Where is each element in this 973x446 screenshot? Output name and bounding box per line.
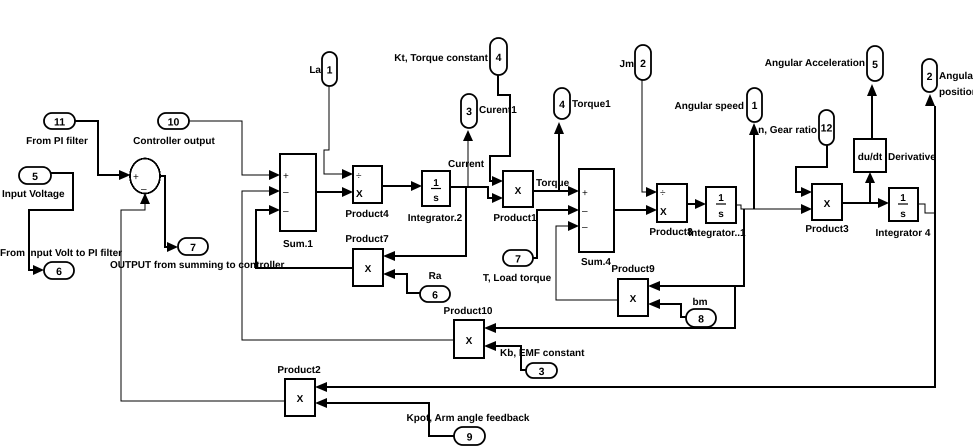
svg-text:T, Load torque: T, Load torque bbox=[483, 273, 552, 284]
wire speed branch up to port1 Angular speed bbox=[749, 123, 759, 209]
svg-text:6: 6 bbox=[56, 266, 62, 278]
svg-text:9: 9 bbox=[467, 432, 473, 444]
port 1 Angular speed (vertical) bbox=[675, 88, 762, 122]
svg-text:X: X bbox=[365, 264, 372, 275]
svg-text:–: – bbox=[283, 206, 289, 217]
svg-text:4: 4 bbox=[559, 99, 565, 111]
block Product3 bbox=[805, 184, 849, 235]
svg-text:Derivative: Derivative bbox=[888, 152, 936, 163]
svg-text:+: + bbox=[133, 172, 139, 183]
block Product9 (mirrored) bbox=[611, 264, 655, 316]
svg-text:1: 1 bbox=[433, 178, 439, 189]
block Product7 bbox=[345, 234, 389, 286]
svg-text:X: X bbox=[824, 199, 831, 210]
svg-text:X: X bbox=[630, 294, 637, 305]
svg-text:7: 7 bbox=[515, 254, 521, 266]
wire sum circle to port7 bbox=[160, 176, 178, 252]
svg-text:Sum.4: Sum.4 bbox=[581, 257, 611, 268]
port 5 Input Voltage bbox=[2, 167, 65, 200]
svg-text:–: – bbox=[582, 206, 588, 217]
svg-text:2: 2 bbox=[927, 71, 933, 83]
port 2 Jm (vertical) bbox=[620, 45, 651, 80]
wire Sum.1 out to Product4 in2 bbox=[316, 187, 353, 197]
svg-text:Product8: Product8 bbox=[649, 227, 693, 238]
svg-text:Kpot, Arm angle feedback: Kpot, Arm angle feedback bbox=[407, 413, 530, 424]
block Product10 bbox=[444, 306, 493, 358]
wire port11 to sum circle bbox=[75, 121, 131, 180]
svg-text:Input Voltage: Input Voltage bbox=[2, 189, 65, 200]
svg-text:6: 6 bbox=[432, 290, 438, 302]
svg-text:s: s bbox=[433, 193, 439, 204]
svg-text:Angular: Angular bbox=[939, 71, 973, 82]
svg-text:La: La bbox=[309, 65, 321, 76]
svg-text:1: 1 bbox=[900, 193, 906, 204]
wire Product3 out to Integrator 4 bbox=[842, 198, 889, 208]
svg-text:X: X bbox=[356, 189, 363, 200]
wire current branch down to Product7 in1 bbox=[383, 187, 466, 261]
svg-text:X: X bbox=[297, 394, 304, 405]
block Integrator..1 bbox=[688, 187, 746, 239]
wire position line up to port2 bbox=[925, 94, 935, 213]
svg-text:position: position bbox=[939, 87, 973, 98]
wire du/dt out to port5 Angular Acceleration bbox=[867, 84, 877, 139]
svg-text:Integrator.2: Integrator.2 bbox=[408, 213, 463, 224]
svg-text:Torque: Torque bbox=[536, 178, 570, 189]
wire Integrator 4 out jog bbox=[918, 204, 935, 213]
port 10 Controller output bbox=[133, 113, 215, 147]
wire Integrator.2 out current line bbox=[448, 159, 503, 203]
svg-text:Product2: Product2 bbox=[277, 365, 321, 376]
wire Product9 out to Sum.4 in3 bbox=[556, 221, 618, 300]
block Product1 bbox=[493, 171, 537, 224]
block Product4 bbox=[345, 166, 389, 220]
svg-text:bm: bm bbox=[693, 297, 708, 308]
svg-text:5: 5 bbox=[872, 59, 878, 71]
port 3 Kb, EMF constant bbox=[500, 348, 585, 378]
svg-text:Product9: Product9 bbox=[611, 264, 655, 275]
svg-text:4: 4 bbox=[496, 52, 502, 64]
port 9 Kpot, Arm angle feedback bbox=[407, 413, 530, 445]
port 1 La (vertical) bbox=[309, 52, 337, 86]
wire port10 to Sum.1 in1 bbox=[189, 121, 280, 180]
svg-text:s: s bbox=[718, 209, 724, 220]
svg-text:OUTPUT from summing to control: OUTPUT from summing to controller bbox=[110, 260, 285, 271]
svg-text:÷: ÷ bbox=[660, 188, 666, 199]
svg-text:–: – bbox=[582, 222, 588, 233]
svg-text:X: X bbox=[515, 186, 522, 197]
port 5 Angular Acceleration (vertical) bbox=[765, 46, 883, 81]
wire Ra port to Product7 in2 bbox=[383, 269, 420, 293]
port 7 T, Load torque bbox=[483, 250, 552, 284]
svg-text:n, Gear ratio: n, Gear ratio bbox=[758, 125, 817, 136]
svg-text:Kt, Torque constant: Kt, Torque constant bbox=[394, 53, 488, 64]
svg-text:–: – bbox=[283, 187, 289, 198]
wire speed tap to Product10 in1 bbox=[484, 286, 735, 333]
svg-text:Angular Acceleration: Angular Acceleration bbox=[765, 58, 865, 69]
wire port8 bm to Product9 in2 bbox=[648, 299, 686, 317]
port 4 Torque1 (vertical) bbox=[554, 88, 611, 119]
svg-text:3: 3 bbox=[539, 366, 545, 378]
svg-text:Controller output: Controller output bbox=[133, 136, 215, 147]
svg-text:Product1: Product1 bbox=[493, 213, 537, 224]
port 2 Angular position (vertical) bbox=[922, 59, 973, 98]
block Sum.1 bbox=[280, 154, 316, 250]
svg-text:Product10: Product10 bbox=[444, 306, 493, 317]
port 7 OUTPUT from summing to controller bbox=[110, 238, 285, 271]
wire Product4 out to Integrator.2 bbox=[382, 181, 422, 191]
svg-text:Sum.1: Sum.1 bbox=[283, 239, 313, 250]
svg-text:Torque1: Torque1 bbox=[572, 99, 611, 110]
wire port12 to Product3 in1 bbox=[796, 145, 827, 197]
wire Product1 out Torque to Sum.4 in1 bbox=[533, 178, 579, 196]
svg-text:8: 8 bbox=[698, 314, 704, 326]
svg-text:÷: ÷ bbox=[356, 171, 362, 182]
svg-text:7: 7 bbox=[190, 242, 196, 254]
port 12 n, Gear ratio (vertical) bbox=[758, 110, 834, 145]
svg-text:Product7: Product7 bbox=[345, 234, 389, 245]
block Product2 bbox=[277, 365, 321, 416]
svg-text:+: + bbox=[582, 188, 588, 199]
svg-text:Product3: Product3 bbox=[805, 224, 849, 235]
wire port3 Kb to Product10 in2 bbox=[484, 341, 526, 370]
wire torque branch up to Torque1 port bbox=[554, 122, 564, 191]
port 11 From PI filter bbox=[26, 113, 88, 147]
svg-text:1: 1 bbox=[718, 193, 724, 204]
svg-text:Ra: Ra bbox=[429, 271, 442, 282]
svg-text:Jm: Jm bbox=[620, 59, 635, 70]
wire port4 Kt to Product1 in1 bbox=[490, 75, 510, 186]
svg-text:X: X bbox=[466, 336, 473, 347]
sum junction circle bbox=[130, 159, 160, 196]
svg-text:du/dt: du/dt bbox=[858, 152, 883, 163]
wire Product7 out to Sum.1 in3 bbox=[256, 205, 353, 268]
svg-text:3: 3 bbox=[466, 106, 472, 118]
svg-text:1: 1 bbox=[327, 65, 333, 77]
svg-text:Angular speed: Angular speed bbox=[675, 101, 744, 112]
svg-text:Curent1: Curent1 bbox=[479, 105, 517, 116]
svg-text:Kb, EMF constant: Kb, EMF constant bbox=[500, 348, 585, 359]
port 6 Ra bbox=[420, 271, 450, 302]
svg-text:10: 10 bbox=[168, 117, 180, 129]
wire port2 Jm to Product8 in1 bbox=[642, 80, 657, 197]
wire branch up to du/dt bbox=[865, 172, 875, 203]
wire Sum.4 out to Product8 in2 bbox=[614, 205, 657, 215]
port 4 Kt, Torque constant (vertical) bbox=[394, 38, 507, 75]
wire position feedback down and across to Product2 in1 bbox=[315, 213, 935, 392]
svg-text:Integrator 4: Integrator 4 bbox=[875, 228, 930, 239]
block Derivative du/dt bbox=[854, 139, 936, 172]
block Product8 bbox=[649, 184, 693, 238]
port 6 From input Volt to PI filter bbox=[0, 248, 122, 279]
svg-text:11: 11 bbox=[54, 117, 65, 129]
wire port9 Kpot to Product2 in2 bbox=[315, 398, 454, 436]
svg-text:Current: Current bbox=[448, 159, 485, 170]
wire current branch up to port3 bbox=[463, 130, 473, 187]
svg-text:From PI filter: From PI filter bbox=[26, 136, 88, 147]
wire Product8 out to Integrator..1 bbox=[687, 199, 706, 209]
wire Product2 out to sum circle bottom bbox=[121, 193, 285, 401]
svg-text:+: + bbox=[283, 171, 289, 182]
wire Product10 out to Sum.1 in2 bbox=[242, 186, 454, 340]
svg-text:5: 5 bbox=[32, 171, 38, 183]
wire port1 La to Product4 in1 bbox=[324, 86, 353, 179]
wire speed branch down to Product9 in1 bbox=[648, 209, 744, 291]
svg-text:Integrator..1: Integrator..1 bbox=[688, 228, 746, 239]
svg-text:–: – bbox=[141, 184, 147, 195]
wire port7 T Load to Sum.4 in2 bbox=[533, 205, 579, 258]
svg-text:2: 2 bbox=[640, 58, 646, 70]
svg-text:From input Volt to PI filter: From input Volt to PI filter bbox=[0, 248, 122, 259]
port 3 Curent1 (vertical) bbox=[461, 94, 517, 128]
svg-text:X: X bbox=[660, 207, 667, 218]
svg-text:1: 1 bbox=[752, 100, 758, 112]
block Integrator 4 bbox=[875, 188, 930, 239]
block Integrator.2 bbox=[408, 171, 463, 224]
wire Integrator..1 out speed line to Product3 in2 bbox=[736, 204, 812, 214]
svg-text:12: 12 bbox=[821, 123, 833, 135]
port 8 bm bbox=[686, 297, 716, 327]
wire port5 to port6 bbox=[29, 173, 73, 275]
svg-text:Product4: Product4 bbox=[345, 209, 389, 220]
block Sum.4 bbox=[579, 169, 614, 268]
svg-text:s: s bbox=[900, 209, 906, 220]
